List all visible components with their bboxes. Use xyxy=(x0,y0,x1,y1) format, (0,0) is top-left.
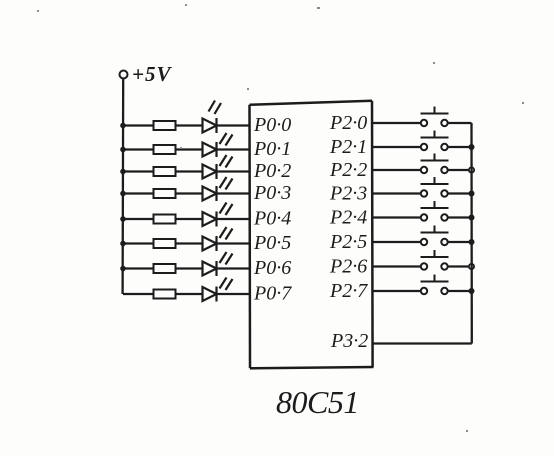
wire rail to R1 xyxy=(123,124,154,126)
wire S2 to bus xyxy=(448,146,472,148)
wire rail to R2 xyxy=(123,148,154,150)
pushbutton S1 xyxy=(421,107,449,127)
wire D4 to U1 P0.3 xyxy=(217,192,251,194)
pushbutton S3 xyxy=(421,154,449,174)
junction node row 2 xyxy=(120,147,126,153)
wire D3 to U1 P0.2 xyxy=(217,170,251,172)
LED D4 xyxy=(203,177,233,201)
wire S7 to bus xyxy=(448,265,472,267)
svg-text:P0·7: P0·7 xyxy=(253,283,292,305)
wire U1 P2.6 to S7 xyxy=(373,265,421,267)
wire D7 to U1 P0.6 xyxy=(217,267,251,269)
LED D1 xyxy=(203,101,222,134)
junction node bus row 3 xyxy=(469,167,474,172)
wire bus to U1 P3.2 xyxy=(373,342,472,344)
wire U1 P2.4 to S5 xyxy=(373,216,421,218)
pushbutton S6 xyxy=(421,226,449,246)
wire U1 P2.7 to S8 xyxy=(373,290,421,292)
LED D5 xyxy=(203,203,233,227)
bus wire vertical xyxy=(470,123,473,344)
wire R6 to D6 xyxy=(176,242,203,244)
resistor R6 xyxy=(154,239,176,248)
LED D3 xyxy=(203,155,233,179)
LED D2 xyxy=(203,133,233,157)
svg-text:P0·4: P0·4 xyxy=(253,208,291,230)
wire rail to R6 xyxy=(123,242,154,244)
svg-text:P2·4: P2·4 xyxy=(329,207,367,229)
wire S6 to bus xyxy=(448,241,472,243)
wire rail to R7 xyxy=(123,267,154,269)
svg-text:P0·0: P0·0 xyxy=(253,114,291,136)
wire U1 P2.5 to S6 xyxy=(373,241,421,243)
junction node bus row 5 xyxy=(469,215,475,221)
junction node bus row 6 xyxy=(469,239,475,245)
wire S5 to bus xyxy=(448,216,472,218)
resistor R1 xyxy=(154,121,176,130)
junction node row 1 xyxy=(120,123,126,129)
junction node bus row 2 xyxy=(469,144,475,150)
svg-text:P2·0: P2·0 xyxy=(329,112,367,134)
op IC U1 80C51 box xyxy=(250,101,374,369)
svg-text:P2·2: P2·2 xyxy=(329,159,367,181)
resistor R7 xyxy=(154,264,176,273)
svg-text:P2·1: P2·1 xyxy=(329,136,367,158)
wire U1 P2.3 to S4 xyxy=(373,192,421,194)
LED D7 xyxy=(203,252,233,276)
svg-text:P2·6: P2·6 xyxy=(329,256,367,278)
junction node row 4 xyxy=(120,191,126,197)
junction node row 5 xyxy=(120,216,126,222)
svg-text:P0·5: P0·5 xyxy=(253,232,291,254)
wire R7 to D7 xyxy=(176,267,203,269)
supply rail wire xyxy=(121,79,124,295)
wire S4 to bus xyxy=(448,192,472,194)
LED D6 xyxy=(203,227,233,251)
wire R4 to D4 xyxy=(176,192,203,194)
wire U1 P2.2 to S3 xyxy=(373,169,421,171)
wire R8 to D8 xyxy=(176,293,203,295)
junction node row 7 xyxy=(120,266,126,272)
wire R3 to D3 xyxy=(176,170,203,172)
junction node bus row 8 xyxy=(469,288,475,294)
svg-text:+5V: +5V xyxy=(132,62,172,86)
svg-text:P0·6: P0·6 xyxy=(253,257,291,279)
junction node bus row 7 xyxy=(469,264,474,269)
wire rail to R4 xyxy=(123,192,154,194)
wire D1 to U1 P0.0 xyxy=(217,124,251,126)
junction node row 6 xyxy=(120,241,126,247)
resistor R5 xyxy=(154,215,176,224)
wire R5 to D5 xyxy=(176,218,203,220)
wire D6 to U1 P0.5 xyxy=(217,242,251,244)
pushbutton S8 xyxy=(421,275,449,295)
resistor R8 xyxy=(154,290,176,299)
svg-text:P3·2: P3·2 xyxy=(330,330,368,352)
svg-text:80C51: 80C51 xyxy=(276,384,359,420)
wire rail to R8 xyxy=(123,293,154,295)
wire D8 to U1 P0.7 xyxy=(217,293,251,295)
wire S8 to bus xyxy=(448,290,472,292)
resistor R2 xyxy=(154,145,176,154)
wire D5 to U1 P0.4 xyxy=(217,218,251,220)
wire U1 P2.0 to S1 xyxy=(373,122,421,124)
pushbutton S4 xyxy=(421,177,449,197)
junction node bus row 4 xyxy=(469,191,475,197)
resistor R3 xyxy=(154,167,176,176)
svg-text:P2·3: P2·3 xyxy=(329,183,367,205)
pushbutton S5 xyxy=(421,201,449,221)
wire R2 to D2 xyxy=(176,148,203,150)
wire D2 to U1 P0.1 xyxy=(217,148,251,150)
pushbutton S7 xyxy=(421,250,449,270)
svg-text:P2·5: P2·5 xyxy=(329,231,367,253)
pushbutton S2 xyxy=(421,131,449,151)
wire U1 P2.1 to S2 xyxy=(373,146,421,148)
svg-text:P0·1: P0·1 xyxy=(253,138,291,160)
wire S3 to bus xyxy=(448,169,472,171)
junction node row 3 xyxy=(120,169,126,175)
wire rail to R3 xyxy=(123,170,154,172)
wire R1 to D1 xyxy=(176,124,203,126)
svg-text:P0·3: P0·3 xyxy=(253,182,291,204)
LED D8 xyxy=(203,278,233,302)
resistor R4 xyxy=(154,189,176,198)
svg-text:P0·2: P0·2 xyxy=(253,160,291,182)
svg-text:P2·7: P2·7 xyxy=(329,280,368,302)
wire S1 to bus xyxy=(448,122,472,124)
wire rail to R5 xyxy=(123,218,154,220)
+5V terminal xyxy=(120,71,128,79)
